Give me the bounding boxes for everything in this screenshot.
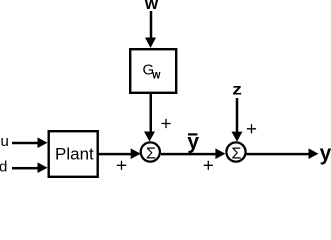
svg-text:Σ: Σ — [146, 145, 156, 162]
wire w to Gw — [150, 11, 153, 38]
arrowhead into sum2 top — [232, 132, 243, 142]
wire Plant to sum1 — [98, 153, 131, 156]
block Gw — [130, 49, 176, 93]
arrowhead into sum2 left — [215, 148, 225, 159]
svg-text:Plant: Plant — [55, 145, 94, 164]
svg-text:d: d — [0, 159, 7, 176]
svg-text:Σ: Σ — [231, 145, 241, 162]
wire u to Plant — [12, 142, 39, 145]
svg-text:y: y — [320, 142, 331, 165]
arrowhead output y — [309, 148, 319, 159]
svg-text:w: w — [151, 69, 160, 82]
summing junction sum2 — [226, 142, 245, 161]
plus sign before sum2 — [204, 161, 213, 170]
block Plant — [49, 131, 98, 177]
svg-text:z: z — [232, 80, 242, 98]
wire d to Plant — [12, 167, 39, 170]
summing junction sum1 — [141, 142, 160, 161]
label ybar (bar) — [188, 133, 197, 135]
plus sign at z wire — [247, 124, 256, 133]
svg-text:u: u — [1, 133, 9, 150]
wire z to sum2 — [236, 98, 239, 133]
wire Gw to sum1 — [150, 93, 153, 133]
arrowhead into sum1 top — [144, 132, 155, 142]
svg-text:y: y — [187, 130, 199, 153]
arrowhead d into Plant — [38, 162, 48, 173]
plus sign below Plant-sum1 wire — [117, 161, 126, 170]
wire sum1 to sum2 — [161, 153, 216, 156]
arrowhead into sum1 left — [131, 148, 141, 159]
arrowhead u into Plant — [38, 137, 48, 148]
plus sign at Gw-sum1 wire — [161, 119, 170, 128]
arrowhead into Gw — [145, 38, 156, 49]
wire sum2 to output y — [247, 153, 310, 156]
